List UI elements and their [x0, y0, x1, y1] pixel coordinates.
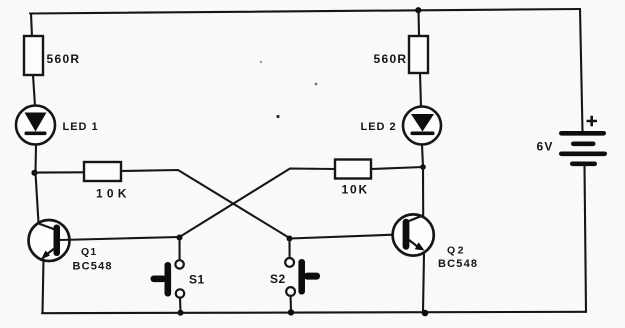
label: BC548 (Q1): [73, 261, 113, 273]
wire: 560R right to LED2: [420, 73, 421, 107]
junction: top node to 560R right: [415, 7, 421, 13]
label: + battery positive: [587, 116, 598, 127]
wire: S1 to ground rail: [179, 298, 182, 313]
svg-text:S1: S1: [189, 273, 205, 287]
wire: top node to 560R right: [417, 10, 420, 36]
node D: Q2 collector junction: [420, 164, 426, 170]
junction: S1 bottom node: [178, 310, 184, 316]
svg-text:560R: 560R: [374, 52, 408, 66]
wire: top supply rail: [30, 9, 580, 14]
node A: Q1 collector junction: [31, 170, 37, 176]
svg-text:10K: 10K: [96, 187, 131, 201]
svg-text:560R: 560R: [47, 52, 81, 66]
switch S1 (pushbutton): [151, 260, 185, 298]
wire: battery negative to ground rail: [585, 166, 587, 312]
svg-text:LED 2: LED 2: [361, 121, 397, 133]
wire: V+ rail right side down to battery: [580, 9, 583, 131]
wire: Q2 emitter to ground rail: [423, 254, 424, 313]
wire: node A to 10K left: [35, 171, 85, 173]
svg-text:Q2: Q2: [447, 245, 466, 257]
label: LED 1: [63, 121, 99, 133]
svg-text:BC548: BC548: [73, 261, 113, 273]
wire: LED1 to node A: [34, 145, 37, 173]
wire: 560R left to LED1: [33, 75, 35, 106]
wire: LED2 to node D: [422, 145, 423, 168]
svg-text:10K: 10K: [342, 183, 369, 197]
label: Q2: [447, 245, 466, 257]
resistor 10K (left): [84, 162, 121, 181]
junction: Q2 emitter bottom node: [422, 310, 429, 317]
wire: Q1 emitter to ground rail: [43, 260, 44, 313]
label: LED 2: [361, 121, 397, 133]
junction: S2 bottom node: [288, 309, 294, 315]
resistor 560R (right): [409, 36, 428, 73]
label: 560R (right): [374, 52, 408, 66]
node B: Q1 base / S1 junction: [177, 235, 183, 241]
transistor Q2 BC548: [393, 214, 434, 255]
wire: Q1 base to node B: [60, 237, 180, 240]
label: 10K (right): [342, 183, 369, 197]
svg-text:Q1: Q1: [81, 246, 97, 258]
battery BT1 6V plates: [559, 131, 607, 166]
resistor 10K (right): [335, 160, 371, 179]
LED LED2: [403, 107, 441, 145]
label: 560R (left): [47, 52, 81, 66]
scan speck: [315, 83, 318, 86]
scan speck: [260, 61, 262, 63]
wire: node A to Q1 collector: [36, 173, 39, 223]
wire: 10K right to node B (cross-coupling): [180, 169, 336, 238]
wire: node B to switch S1: [178, 239, 180, 260]
wire: top rail to 560R left: [31, 14, 32, 38]
wire: node C to Q2 base: [290, 234, 403, 238]
wire: bottom ground rail: [42, 312, 586, 313]
wire: node C to switch S2: [288, 239, 290, 258]
label: BC548 (Q2): [438, 258, 478, 270]
resistor 560R (left): [24, 36, 43, 75]
label: Q1: [81, 246, 97, 258]
wire: 10K left to node C (cross-coupling): [121, 170, 290, 238]
label: 10K (left): [96, 187, 131, 201]
wire: node D to Q2 collector: [422, 168, 424, 216]
svg-text:6V: 6V: [537, 140, 554, 154]
label: 6V: [537, 140, 554, 154]
svg-text:S2: S2: [270, 272, 286, 286]
label: S2: [270, 272, 286, 286]
scan speck: [276, 115, 279, 118]
svg-text:BC548: BC548: [438, 258, 478, 270]
transistor Q1 BC548: [29, 220, 70, 261]
switch S2 (pushbutton): [285, 258, 320, 296]
node C: Q2 base / S2 junction: [287, 236, 293, 242]
wire: 10K right to node D: [371, 167, 423, 169]
wire: S2 to ground rail: [290, 296, 292, 313]
svg-text:LED 1: LED 1: [63, 121, 99, 133]
label: S1: [189, 273, 205, 287]
LED LED1: [16, 106, 55, 145]
